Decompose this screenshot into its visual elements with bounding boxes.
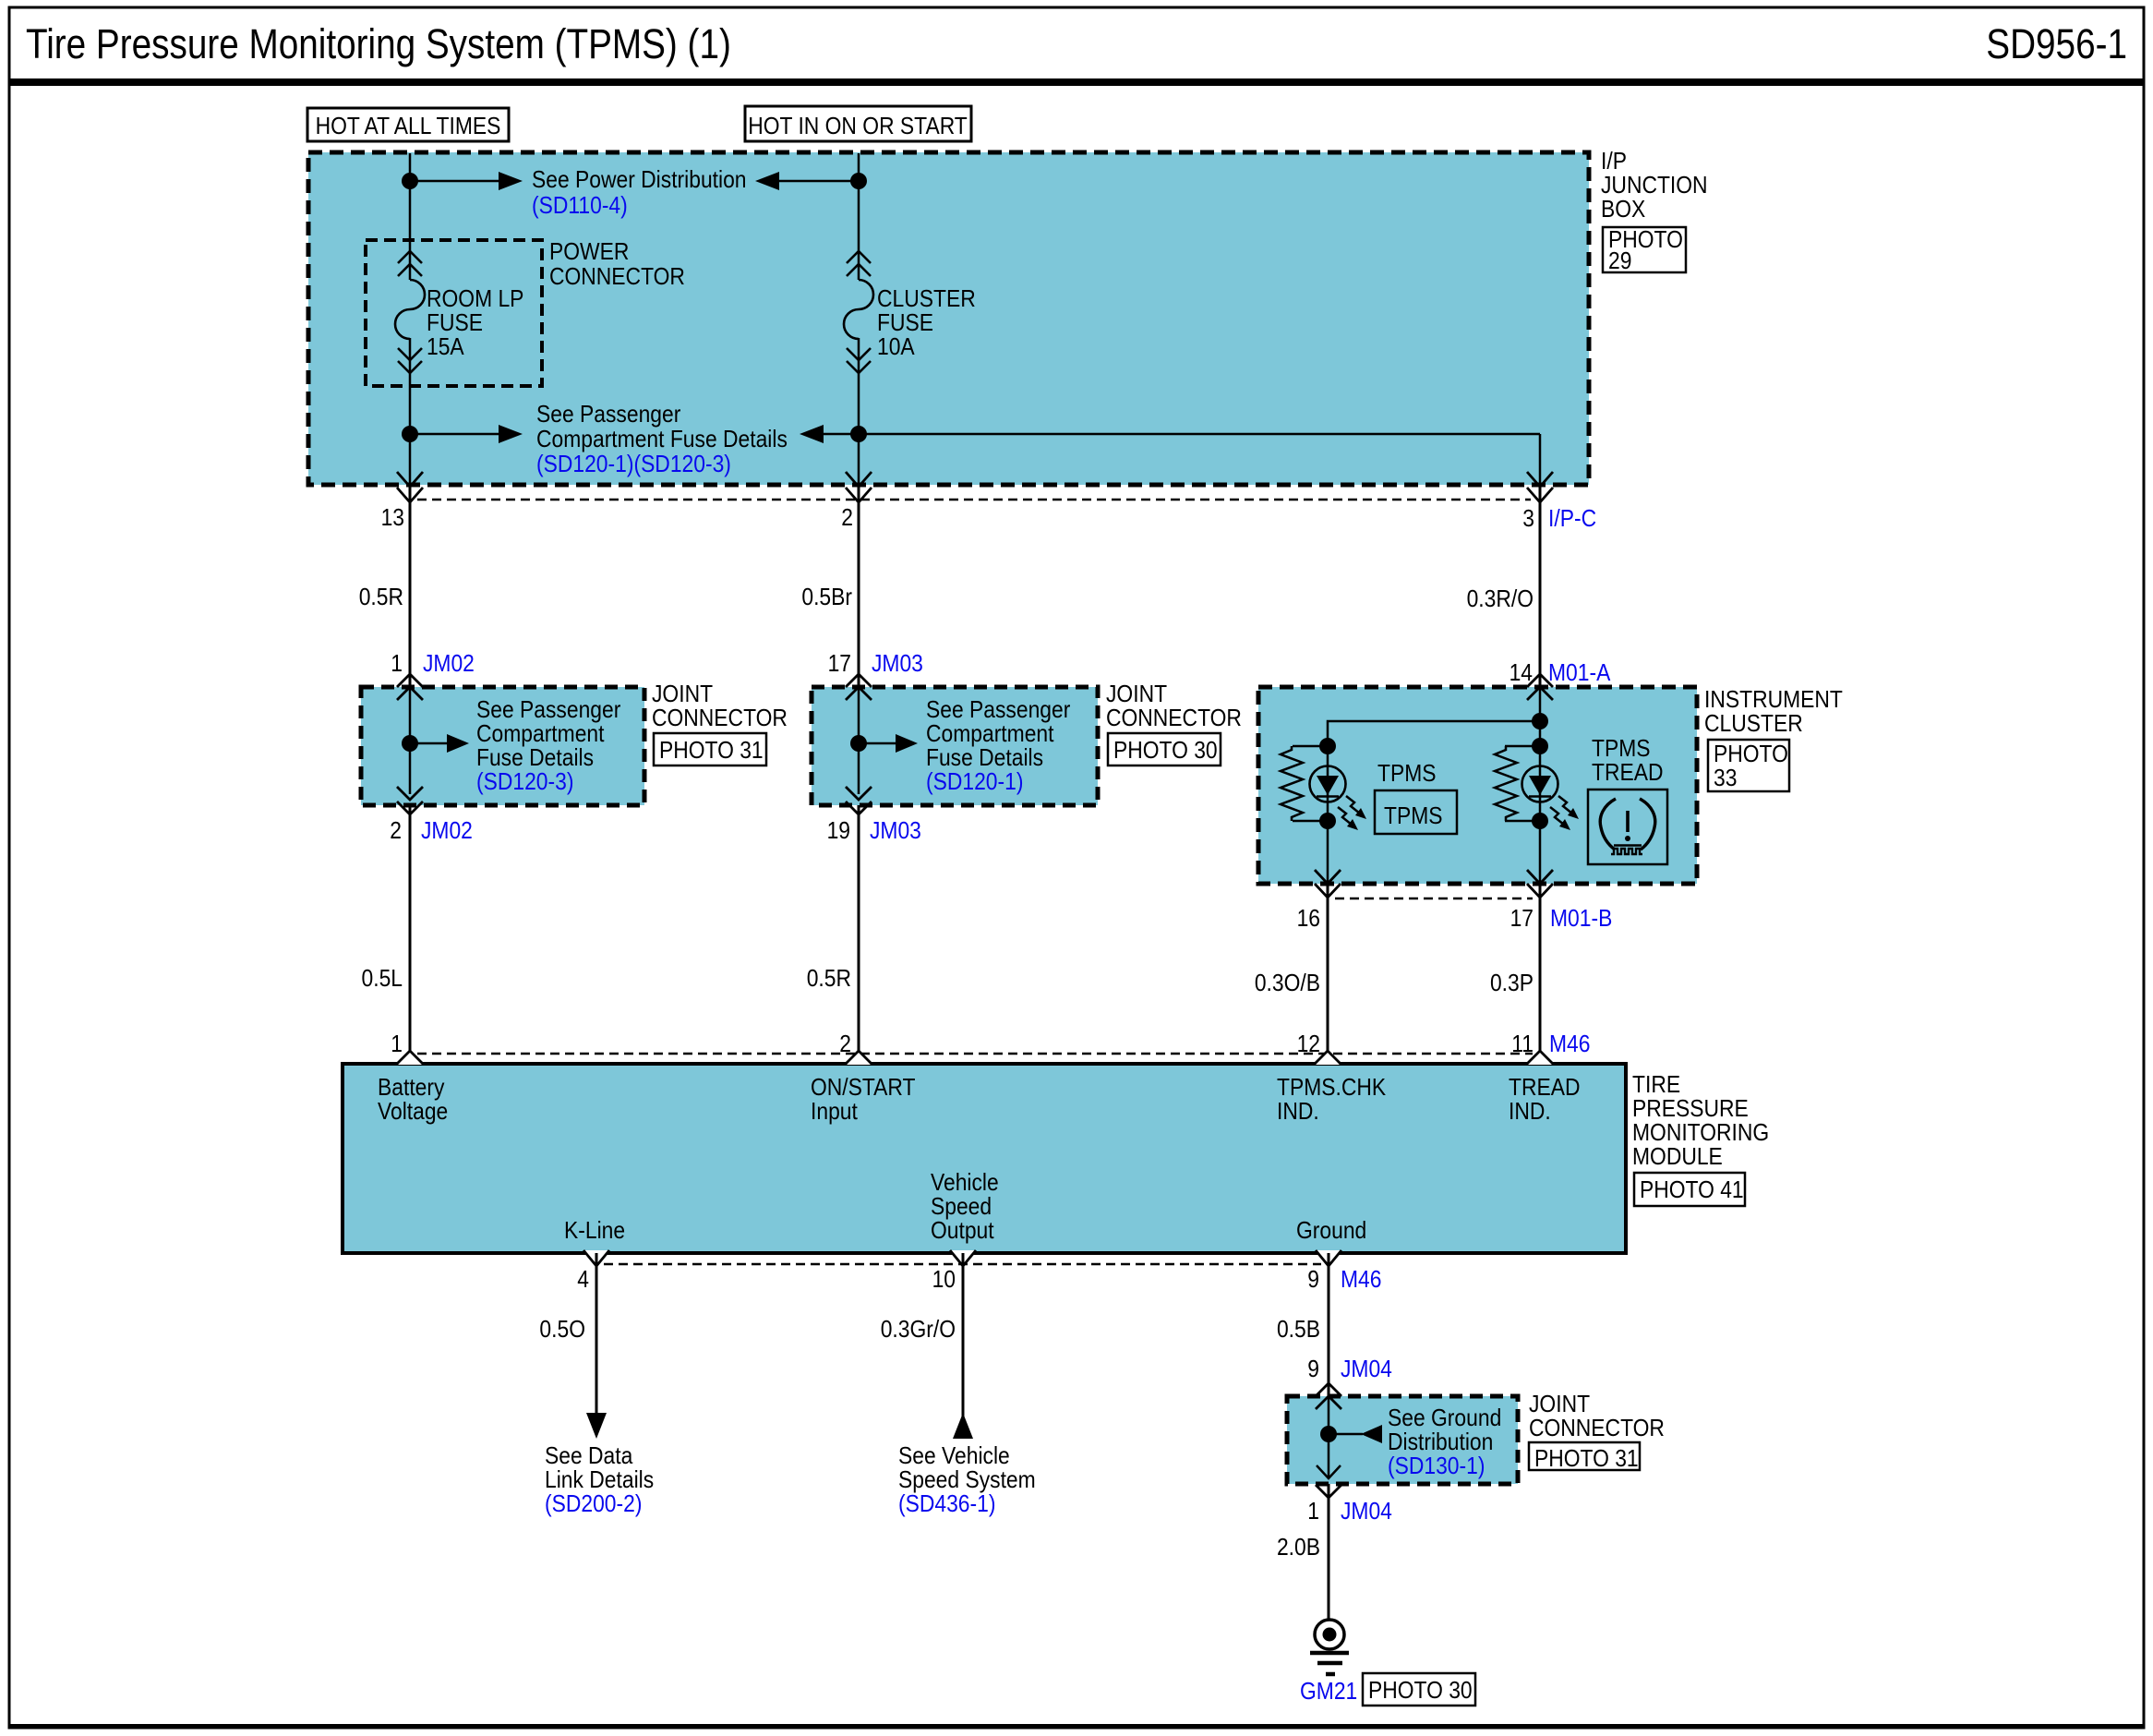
JM02 bottom pin chevrons (397, 787, 423, 814)
svg-text:See Passenger: See Passenger (476, 697, 620, 724)
arrow right from A2 (410, 425, 523, 443)
svg-text:IND.: IND. (1277, 1099, 1319, 1126)
wire B below box to JM03 and module (858, 485, 860, 1064)
svg-text:2.0B: 2.0B (1277, 1535, 1320, 1561)
svg-text:JUNCTION: JUNCTION (1601, 173, 1708, 199)
svg-text:M01-B: M01-B (1550, 906, 1612, 933)
module label tread ind (1509, 1075, 1580, 1126)
JM04 bottom pin chevrons (1316, 1485, 1341, 1498)
junction dot C mid (1532, 738, 1548, 754)
JM04 internal wire (1328, 1396, 1330, 1477)
svg-text:(SD120-1)(SD120-3): (SD120-1)(SD120-3) (536, 452, 731, 478)
junction dot D low (1319, 813, 1336, 829)
ground wire to JM04 (1328, 1253, 1330, 1396)
module label on/start input (811, 1075, 916, 1126)
fuse F2 element (844, 280, 873, 339)
svg-text:M46: M46 (1549, 1031, 1590, 1058)
joint connector JM02 box (361, 687, 644, 805)
JM03 top pin chevrons (846, 674, 872, 700)
svg-text:(SD130-1): (SD130-1) (1388, 1453, 1485, 1480)
PHOTO 30 box JM03 (1108, 733, 1221, 766)
junction dot A1 (402, 173, 418, 189)
svg-text:FUSE: FUSE (427, 310, 483, 337)
module pin notch 1 (397, 1051, 423, 1065)
svg-text:INSTRUMENT: INSTRUMENT (1704, 687, 1843, 714)
wire A below box to JM02 and module (409, 485, 412, 1064)
JM04 arrow left (1329, 1425, 1382, 1443)
JM03 arrow right (859, 734, 918, 753)
junction dot D top (1319, 738, 1336, 754)
svg-text:M01-A: M01-A (1548, 660, 1611, 687)
ground wire to GM21 (1328, 1484, 1330, 1620)
wire B upper segment (858, 153, 860, 280)
TPMS tread icon box (1588, 790, 1667, 864)
svg-text:17: 17 (828, 651, 851, 678)
svg-text:See Passenger: See Passenger (536, 402, 680, 428)
resistor R2 stubs (1505, 746, 1540, 821)
svg-text:10: 10 (932, 1267, 956, 1294)
svg-text:Distribution: Distribution (1388, 1429, 1493, 1456)
svg-text:Input: Input (811, 1099, 858, 1126)
K-line arrowhead (586, 1413, 607, 1439)
svg-text:PHOTO 31: PHOTO 31 (1534, 1446, 1639, 1473)
svg-text:(SD436-1): (SD436-1) (898, 1491, 995, 1518)
svg-text:0.3R/O: 0.3R/O (1467, 586, 1534, 613)
JM02 see passenger text (476, 697, 620, 796)
instrument cluster name label (1704, 687, 1843, 738)
JM04 see ground distribution text (1388, 1405, 1501, 1480)
HOT AT ALL TIMES label box (307, 108, 509, 141)
PHOTO 41 box (1634, 1173, 1745, 1206)
svg-text:CLUSTER: CLUSTER (1704, 711, 1803, 738)
module name label (1632, 1072, 1769, 1171)
svg-text:Speed: Speed (931, 1194, 992, 1221)
svg-text:TIRE: TIRE (1632, 1072, 1680, 1099)
svg-text:I/P: I/P (1601, 149, 1627, 175)
svg-text:11: 11 (1511, 1031, 1534, 1058)
K-line wire (595, 1253, 598, 1418)
JM04 internal down arrow (1317, 1465, 1341, 1478)
JM02 joint connector label (652, 681, 788, 732)
svg-text:IND.: IND. (1509, 1099, 1551, 1126)
svg-text:0.5R: 0.5R (807, 966, 851, 993)
JM04 junction dot (1320, 1426, 1337, 1442)
HOT IN ON OR START label box (745, 106, 971, 141)
svg-text:0.5R: 0.5R (359, 585, 403, 611)
svg-text:CLUSTER: CLUSTER (877, 286, 976, 313)
svg-text:TREAD: TREAD (1592, 760, 1663, 787)
vehicle speed output wire (962, 1253, 965, 1439)
LED2 light arrows (1550, 796, 1579, 830)
arrow left on row2 (800, 425, 824, 443)
svg-text:33: 33 (1714, 766, 1737, 792)
svg-text:ON/START: ON/START (811, 1075, 916, 1102)
I/P junction box (dashed cyan) (308, 152, 1589, 485)
module pin notch 2 (846, 1051, 872, 1065)
LED1 light arrows (1338, 796, 1366, 830)
svg-text:PHOTO: PHOTO (1714, 741, 1788, 768)
fuse F2 label CLUSTER FUSE 10A (877, 286, 976, 361)
junction dot B2 (850, 426, 867, 442)
svg-text:ROOM LP: ROOM LP (427, 286, 523, 313)
svg-text:0.5Br: 0.5Br (801, 585, 852, 611)
TPMS TREAD lamp name (1592, 736, 1663, 787)
JM03 junction dot (850, 735, 867, 752)
svg-text:MODULE: MODULE (1632, 1144, 1723, 1171)
svg-text:JM02: JM02 (423, 651, 475, 678)
svg-text:CONNECTOR: CONNECTOR (652, 705, 788, 732)
wire B lower segment inside box (858, 338, 860, 485)
wire 17 to module (1539, 884, 1542, 1064)
svg-text:BOX: BOX (1601, 197, 1645, 223)
svg-text:2: 2 (841, 505, 853, 532)
svg-text:JOINT: JOINT (1106, 681, 1167, 708)
svg-text:TPMS.CHK: TPMS.CHK (1277, 1075, 1387, 1102)
svg-text:Battery: Battery (378, 1075, 445, 1102)
module label vehicle speed output (931, 1170, 999, 1245)
resistor R2 (1495, 746, 1517, 821)
svg-text:See Power Distribution: See Power Distribution (532, 167, 747, 194)
LED1 indicator (1310, 766, 1346, 802)
svg-text:M46: M46 (1341, 1267, 1381, 1294)
svg-text:CONNECTOR: CONNECTOR (1106, 705, 1242, 732)
svg-text:12: 12 (1297, 1031, 1320, 1058)
svg-text:Compartment: Compartment (476, 721, 605, 748)
vehicle speed arrowhead up (953, 1413, 973, 1439)
svg-text:POWER: POWER (549, 239, 629, 266)
svg-text:JM02: JM02 (421, 818, 473, 845)
svg-text:3: 3 (1522, 506, 1534, 533)
JM02 internal wire (409, 687, 412, 794)
fuse F1 room lp chevrons top (398, 251, 422, 276)
connector boundary dashed line M01-B (1335, 898, 1533, 900)
JM03 bottom pin chevrons (846, 787, 872, 814)
svg-text:TPMS: TPMS (1384, 803, 1443, 830)
svg-text:1: 1 (391, 651, 403, 678)
svg-text:Vehicle: Vehicle (931, 1170, 999, 1197)
see vehicle speed system text (898, 1443, 1036, 1518)
cluster wire C segment (1539, 687, 1542, 884)
cluster bottom pin chevrons 17 (1527, 870, 1553, 898)
wire C below box to cluster (1539, 485, 1542, 1064)
junction dot B1 (850, 173, 867, 189)
svg-text:HOT AT ALL TIMES: HOT AT ALL TIMES (316, 114, 501, 140)
cluster crossbar wire (1328, 721, 1540, 746)
ground symbol GM21 (1310, 1620, 1349, 1674)
svg-text:I/P-C: I/P-C (1548, 506, 1596, 533)
svg-text:1: 1 (1307, 1499, 1319, 1525)
JM02 junction dot (402, 735, 418, 752)
power connector dashed box (366, 240, 542, 386)
svg-text:9: 9 (1307, 1267, 1319, 1294)
PHOTO 33 box (1708, 740, 1789, 791)
svg-text:Link Details: Link Details (545, 1467, 654, 1494)
svg-text:JOINT: JOINT (1529, 1392, 1590, 1418)
svg-text:2: 2 (839, 1031, 851, 1058)
svg-text:JM04: JM04 (1341, 1499, 1392, 1525)
JM03 joint connector label (1106, 681, 1242, 732)
wire C vertical run (1539, 434, 1542, 485)
svg-text:TPMS: TPMS (1377, 761, 1437, 788)
svg-text:PHOTO 30: PHOTO 30 (1113, 738, 1218, 765)
svg-text:HOT IN ON OR START: HOT IN ON OR START (748, 114, 968, 140)
svg-text:Voltage: Voltage (378, 1099, 448, 1126)
svg-text:1: 1 (391, 1031, 403, 1058)
svg-text:JM03: JM03 (870, 818, 921, 845)
svg-text:2: 2 (390, 818, 402, 845)
fuse F1 label ROOM LP FUSE 15A (427, 286, 523, 361)
resistor R1 (1281, 746, 1303, 821)
resistor R1 stubs (1293, 746, 1328, 821)
svg-text:CONNECTOR: CONNECTOR (549, 264, 685, 291)
JM02 arrow right (410, 734, 469, 753)
JM03 see passenger text (926, 697, 1070, 796)
JM03 internal wire (858, 687, 860, 794)
PHOTO 31 box JM04 (1529, 1442, 1640, 1472)
module label battery voltage (378, 1075, 448, 1126)
svg-text:(SD120-1): (SD120-1) (926, 769, 1023, 796)
wire 16 to module (1327, 884, 1329, 1064)
svg-text:19: 19 (827, 818, 850, 845)
title rule (9, 78, 2144, 86)
bottom border accent (9, 1724, 2144, 1729)
module pin notch 12 (1315, 1051, 1341, 1065)
svg-text:0.5B: 0.5B (1277, 1317, 1320, 1344)
fuse F1 chevrons bottom (398, 348, 422, 373)
svg-text:Fuse Details: Fuse Details (476, 745, 594, 772)
TPMS legend box (1375, 790, 1457, 834)
svg-text:PHOTO 31: PHOTO 31 (659, 738, 764, 765)
svg-text:0.5L: 0.5L (362, 966, 403, 993)
instrument cluster box (1258, 687, 1697, 884)
svg-text:(SD110-4): (SD110-4) (532, 193, 628, 220)
TPMS module box (343, 1064, 1626, 1253)
svg-text:17: 17 (1510, 906, 1534, 933)
module label tpms.chk ind (1277, 1075, 1387, 1126)
svg-text:10A: 10A (877, 334, 915, 361)
module top boundary dashed line (417, 1053, 1533, 1055)
junction dot C low (1532, 813, 1548, 829)
module bottom pin chevrons 4 (583, 1250, 609, 1266)
svg-text:0.5O: 0.5O (539, 1317, 585, 1344)
svg-text:4: 4 (577, 1267, 589, 1294)
svg-text:See Passenger: See Passenger (926, 697, 1070, 724)
JM02 top pin chevrons (397, 674, 423, 700)
svg-text:SD956-1: SD956-1 (1986, 20, 2127, 66)
pin chevrons 2 at box bottom (846, 472, 872, 502)
svg-text:CONNECTOR: CONNECTOR (1529, 1416, 1665, 1442)
svg-text:(SD200-2): (SD200-2) (545, 1491, 642, 1518)
wire C horizontal run inside box (822, 433, 1540, 436)
svg-text:Tire Pressure Monitoring Syste: Tire Pressure Monitoring System (TPMS) (… (26, 20, 731, 66)
I/P junction box name label (1601, 149, 1708, 223)
svg-text:29: 29 (1608, 248, 1631, 275)
svg-text:JOINT: JOINT (652, 681, 713, 708)
svg-text:See Data: See Data (545, 1443, 633, 1470)
fuse F1 element (395, 280, 425, 339)
JM04 joint connector label (1529, 1392, 1665, 1442)
svg-text:FUSE: FUSE (877, 310, 933, 337)
JM04 top pin chevrons (1316, 1383, 1341, 1409)
svg-text:0.3Gr/O: 0.3Gr/O (881, 1317, 956, 1344)
arrow left into B1 (755, 172, 859, 190)
svg-text:PHOTO 41: PHOTO 41 (1640, 1177, 1744, 1204)
junction dot A2 (402, 426, 418, 442)
module pin notch 11 (1527, 1051, 1553, 1065)
svg-text:JM03: JM03 (872, 651, 923, 678)
module bottom pin chevrons 9 (1316, 1250, 1341, 1266)
svg-text:Output: Output (931, 1218, 994, 1245)
connector boundary dashed line I/P-C (417, 499, 1531, 501)
arrow right from A1 (410, 172, 523, 190)
svg-text:TREAD: TREAD (1509, 1075, 1580, 1102)
PHOTO 29 box (1603, 227, 1686, 275)
fuse F2 chevrons bottom (847, 348, 871, 373)
svg-text:0.3P: 0.3P (1490, 970, 1534, 997)
svg-text:JM04: JM04 (1341, 1356, 1392, 1383)
cluster top pin chevrons 14 (1527, 674, 1553, 700)
pin chevrons 13 at box bottom (397, 472, 423, 502)
svg-text:MONITORING: MONITORING (1632, 1120, 1769, 1147)
svg-text:See Vehicle: See Vehicle (898, 1443, 1010, 1470)
svg-text:0.3O/B: 0.3O/B (1255, 970, 1320, 997)
svg-text:PHOTO 30: PHOTO 30 (1368, 1678, 1473, 1705)
module bottom pin chevrons 10 (950, 1250, 976, 1266)
svg-text:9: 9 (1307, 1356, 1319, 1383)
svg-text:Compartment Fuse Details: Compartment Fuse Details (536, 427, 788, 453)
svg-text:(SD120-3): (SD120-3) (476, 769, 573, 796)
joint connector JM03 box (812, 687, 1098, 805)
PHOTO 31 box JM02 (654, 733, 766, 766)
svg-text:Ground: Ground (1296, 1218, 1366, 1245)
wire A upper segment (409, 153, 412, 280)
svg-text:TPMS: TPMS (1592, 736, 1651, 763)
cluster left leg wire (1327, 746, 1329, 884)
svg-text:16: 16 (1297, 906, 1320, 933)
svg-text:Fuse Details: Fuse Details (926, 745, 1043, 772)
svg-text:PRESSURE: PRESSURE (1632, 1096, 1749, 1123)
svg-text:13: 13 (381, 505, 404, 532)
svg-text:14: 14 (1510, 660, 1533, 687)
svg-text:K-Line: K-Line (564, 1218, 625, 1245)
svg-text:Compartment: Compartment (926, 721, 1054, 748)
module bottom boundary dashed line (604, 1263, 1321, 1266)
LED2 indicator (1522, 766, 1558, 802)
svg-text:15A: 15A (427, 334, 464, 361)
wire A lower segment inside box (409, 338, 412, 485)
see data link details text (545, 1443, 654, 1518)
svg-text:See Ground: See Ground (1388, 1405, 1501, 1432)
junction dot C top (1532, 713, 1548, 729)
svg-text:Speed System: Speed System (898, 1467, 1036, 1494)
fuse F2 cluster chevrons top (847, 251, 871, 276)
pin chevrons 3 at box bottom (1527, 472, 1553, 502)
joint connector JM04 box (1287, 1396, 1518, 1484)
PHOTO 30 box GM21 (1363, 1673, 1475, 1706)
cluster bottom pin chevrons 16 (1315, 870, 1341, 898)
svg-text:GM21: GM21 (1300, 1679, 1357, 1706)
